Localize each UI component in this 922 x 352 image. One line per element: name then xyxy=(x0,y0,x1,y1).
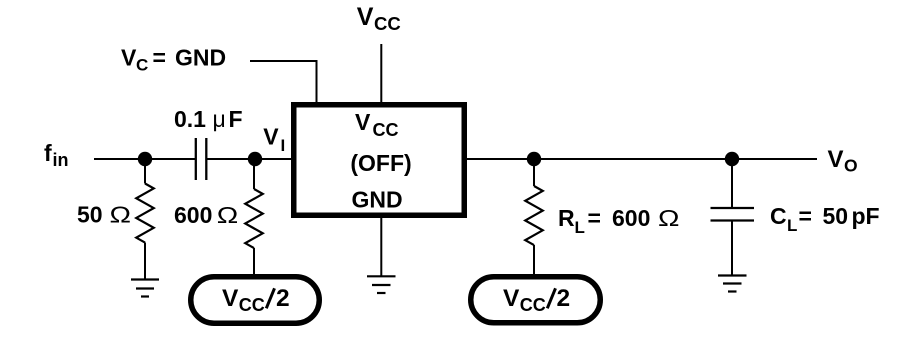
svg-text:L: L xyxy=(787,216,797,235)
node f_in input label xyxy=(44,140,69,170)
wire node VO down to CL xyxy=(731,159,733,208)
svg-text:O: O xyxy=(844,156,858,176)
svg-text:V: V xyxy=(828,146,844,173)
svg-text:600: 600 xyxy=(612,205,650,231)
power VCC label top xyxy=(357,3,401,34)
svg-text:R: R xyxy=(558,205,575,231)
junction node B dot xyxy=(527,152,541,166)
ground symbol under box xyxy=(367,276,396,293)
svg-text:in: in xyxy=(53,150,69,170)
ground symbol under 50 ohm xyxy=(131,280,159,297)
svg-text:600: 600 xyxy=(174,202,212,228)
svg-text:V: V xyxy=(121,45,137,71)
svg-text:L: L xyxy=(575,218,585,237)
resistor 600 ohm zigzag xyxy=(245,189,263,248)
wire node B down to RL xyxy=(533,159,535,186)
junction node A dot xyxy=(138,152,152,166)
wire VCC to box top xyxy=(380,44,382,104)
svg-text:pF: pF xyxy=(852,203,880,229)
resistor 50 ohm zigzag xyxy=(136,184,154,243)
source VCC/2 left oval xyxy=(191,277,320,324)
svg-text:I: I xyxy=(281,136,286,155)
svg-text:0.1: 0.1 xyxy=(174,106,206,132)
svg-text:F: F xyxy=(229,106,243,132)
svg-text:GND: GND xyxy=(175,45,226,71)
value label 0.1 uF xyxy=(174,106,243,132)
wire node A down to 50 ohm resistor xyxy=(144,159,146,184)
wire input horizontal (f_in to capacitor) xyxy=(94,158,195,160)
wire node VI down to 600 ohm resistor xyxy=(253,159,255,189)
svg-text:CC: CC xyxy=(373,120,399,140)
wire CL to ground xyxy=(731,221,733,276)
capacitor C 0.1uF plates xyxy=(196,138,207,180)
svg-text:C: C xyxy=(136,56,148,75)
svg-text:=: = xyxy=(799,203,812,229)
svg-text:V: V xyxy=(357,3,374,31)
resistor RL zigzag xyxy=(525,186,543,245)
IC U1 box xyxy=(294,105,465,216)
svg-text:=: = xyxy=(153,45,166,71)
node VI label xyxy=(263,123,285,155)
wire capacitor to node VI and box xyxy=(206,158,293,160)
wire 600 ohm resistor to VCC/2 source xyxy=(253,248,255,276)
wire output horizontal xyxy=(465,158,817,160)
capacitor CL plates xyxy=(711,208,755,221)
svg-text:CC: CC xyxy=(239,295,265,315)
source VCC/2 right oval xyxy=(471,277,601,323)
wire RL to VCC/2 source xyxy=(533,245,535,276)
junction node VO dot xyxy=(725,152,739,166)
svg-text:Ω: Ω xyxy=(110,202,132,228)
wire GND pin below box xyxy=(380,216,382,276)
value label 600 ohm xyxy=(174,202,238,228)
svg-text:GND: GND xyxy=(351,187,402,213)
wire VC to box top xyxy=(250,61,317,104)
junction node VI dot xyxy=(248,152,262,166)
svg-text:V: V xyxy=(355,109,371,135)
value label RL = 600 ohm xyxy=(558,205,680,237)
svg-text:V: V xyxy=(222,285,239,312)
svg-text:(OFF): (OFF) xyxy=(350,150,411,176)
control label VC = GND xyxy=(121,45,226,75)
svg-text:V: V xyxy=(263,123,279,149)
svg-text:CC: CC xyxy=(520,295,546,315)
svg-text:=: = xyxy=(588,205,601,231)
IC pin label VCC inside box xyxy=(355,109,399,140)
svg-text:CC: CC xyxy=(374,13,401,34)
svg-text:f: f xyxy=(44,140,52,166)
svg-text:50: 50 xyxy=(77,202,103,228)
value label CL = 50 pF xyxy=(770,203,880,235)
svg-text:Ω: Ω xyxy=(217,202,239,228)
svg-text:2: 2 xyxy=(276,285,290,312)
svg-text:μ: μ xyxy=(213,106,226,132)
ground symbol under CL xyxy=(718,276,747,292)
svg-text:2: 2 xyxy=(557,285,571,312)
svg-text:50: 50 xyxy=(823,203,849,229)
wire 50 ohm resistor to ground xyxy=(144,243,146,280)
svg-text:V: V xyxy=(503,285,520,312)
value label 50 ohm xyxy=(77,202,131,228)
svg-text:Ω: Ω xyxy=(658,205,680,231)
svg-text:C: C xyxy=(770,203,787,229)
node VO output label xyxy=(828,146,858,176)
